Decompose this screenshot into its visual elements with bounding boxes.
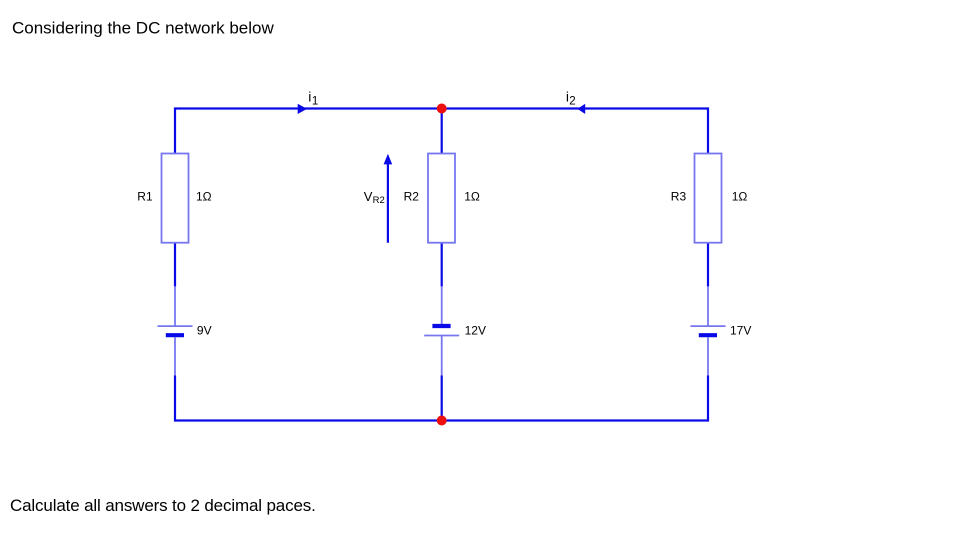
voltage arrow VR2: [384, 154, 393, 243]
svg-text:9V: 9V: [197, 324, 212, 338]
wire middle bottom drop: [441, 376, 443, 421]
wire top rail with left and right corners: [175, 109, 708, 155]
svg-text:2: 2: [569, 95, 575, 107]
battery V2 12V: [424, 286, 459, 375]
wire middle top drop: [441, 109, 443, 154]
resistor R3: [695, 154, 722, 243]
svg-text:1Ω: 1Ω: [196, 190, 212, 204]
arrow i2: [577, 104, 585, 114]
battery V1 9V: [158, 286, 193, 375]
svg-text:1: 1: [312, 95, 318, 107]
svg-text:17V: 17V: [730, 324, 751, 338]
battery V3 17V: [691, 286, 726, 375]
wire bottom rail: [175, 376, 708, 421]
svg-text:R2: R2: [373, 195, 385, 206]
arrow i1: [298, 104, 307, 114]
resistor R2: [428, 154, 455, 243]
svg-text:R2: R2: [404, 190, 420, 204]
node top junction: [437, 104, 447, 114]
svg-text:R3: R3: [671, 190, 687, 204]
node bottom junction: [437, 416, 447, 426]
wire R2 to battery V2: [441, 243, 443, 287]
svg-text:1Ω: 1Ω: [464, 190, 480, 204]
svg-text:1Ω: 1Ω: [732, 190, 748, 204]
svg-text:R1: R1: [137, 190, 153, 204]
wire R3 to battery V3: [707, 243, 709, 287]
svg-text:12V: 12V: [465, 324, 486, 338]
svg-text:Considering the DC network bel: Considering the DC network below: [12, 19, 274, 38]
svg-text:V: V: [364, 189, 373, 204]
wire R1 to battery V1: [174, 243, 176, 287]
resistor R1: [162, 154, 189, 243]
svg-text:Calculate all answers to 2 dec: Calculate all answers to 2 decimal paces…: [10, 496, 316, 515]
